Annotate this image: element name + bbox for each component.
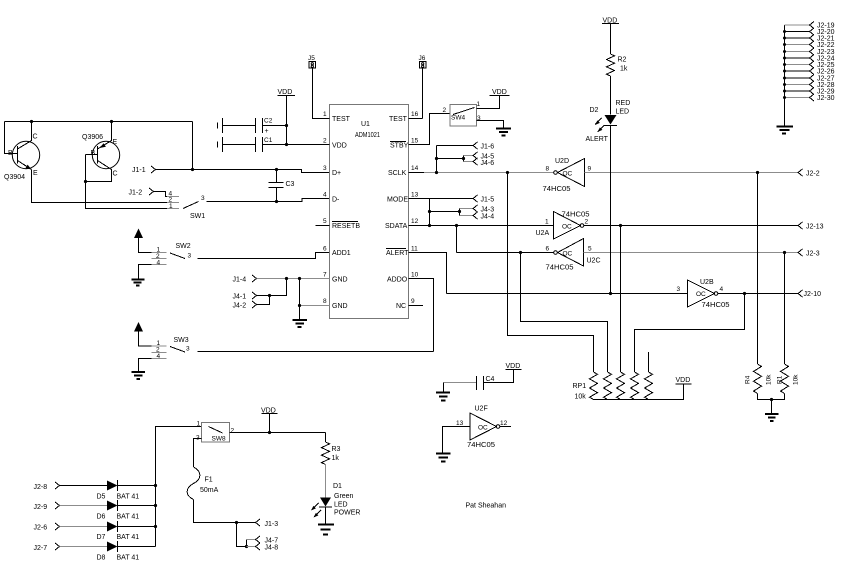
connector J4-3 (460, 205, 495, 214)
svg-text:C3: C3 (286, 181, 295, 188)
wire SW4 pin 3 to ground (477, 121, 504, 129)
wire diode bus to SW8 pin 1 (156, 427, 202, 547)
capacitor C2 (218, 118, 287, 136)
svg-text:Q3904: Q3904 (4, 174, 25, 181)
svg-text:J4-8: J4-8 (265, 545, 279, 552)
inverter U2A 74HC05 (536, 212, 590, 240)
wire RP1 common to VDD (594, 384, 684, 400)
svg-text:J4-4: J4-4 (481, 214, 495, 221)
ground under D1 (318, 525, 334, 535)
svg-text:VDD: VDD (332, 143, 347, 150)
connector J4-7 (247, 536, 279, 545)
svg-text:1k: 1k (332, 455, 340, 462)
svg-text:J2-13: J2-13 (806, 224, 824, 231)
diode D5 BAT 41 (97, 480, 140, 501)
wire J4-3/J4-4 bracket to MODE vertical (430, 209, 462, 216)
svg-text:SW1: SW1 (190, 213, 205, 220)
svg-text:3: 3 (323, 165, 327, 172)
connector J1-3 (256, 519, 279, 528)
connector J4-2 (233, 301, 257, 310)
connector stack J2-19..J2-30 bus (784, 25, 786, 126)
ground at C4 (436, 393, 450, 401)
svg-text:ALERT: ALERT (386, 250, 409, 257)
svg-text:RED: RED (616, 100, 631, 107)
svg-text:ADM1021: ADM1021 (355, 132, 380, 139)
svg-text:9: 9 (588, 166, 592, 173)
wire U2F input to ground (443, 427, 471, 454)
wire ADD0 net: U1 pin 10 to SW3 wire (409, 279, 434, 352)
ground under R4/R1 (765, 414, 779, 421)
connector J4-8 (247, 543, 279, 552)
svg-text:U2A: U2A (536, 230, 550, 237)
wire D1 cathode to ground (325, 507, 327, 524)
svg-text:5: 5 (323, 218, 327, 225)
wire U2F output stub (500, 426, 512, 428)
connector J2-25 (783, 61, 835, 69)
wire U2A output to connector J2-13 (584, 224, 799, 227)
connector J4-5 (464, 152, 495, 161)
connector J1-5 (430, 195, 495, 204)
wire R2 to LED D2 (610, 76, 612, 115)
switch SW3 (152, 337, 191, 360)
connector J2-26 (783, 68, 835, 76)
inverter U2D 74HC05 (543, 158, 592, 193)
svg-text:POWER: POWER (334, 510, 360, 517)
svg-text:J2-10: J2-10 (804, 291, 822, 298)
svg-text:50mA: 50mA (200, 487, 219, 494)
svg-text:J1-2: J1-2 (129, 190, 143, 197)
svg-text:2: 2 (323, 138, 327, 145)
svg-text:74HC05: 74HC05 (562, 212, 590, 219)
svg-text:J1-4: J1-4 (233, 277, 247, 284)
connector J1-6 (437, 142, 495, 173)
svg-text:F1: F1 (205, 477, 213, 484)
wire C4 left plate to ground (443, 383, 445, 393)
wire J4-1 to GND row (257, 279, 287, 298)
inverter U2F 74HC05 (456, 406, 508, 450)
wire SW2 pin 4 to ground (139, 265, 152, 280)
connector J2-13 (798, 222, 824, 231)
wire U1 pin 15 STBY to SW4 pin 2 (409, 114, 451, 145)
svg-text:6: 6 (546, 246, 550, 253)
svg-text:3: 3 (201, 195, 205, 202)
ground at SW4 (496, 129, 511, 136)
svg-text:C: C (113, 171, 118, 178)
power VDD at RP1 (676, 377, 692, 384)
svg-text:J2-26: J2-26 (817, 69, 835, 76)
svg-text:3: 3 (188, 253, 192, 260)
wire J2-9 to diode D6 (60, 505, 108, 507)
svg-text:J2-9: J2-9 (34, 504, 48, 511)
svg-text:SW4: SW4 (451, 115, 465, 122)
svg-text:VDD: VDD (506, 363, 521, 370)
op-amp U1 ADM1021 body (330, 105, 409, 319)
svg-text:OC: OC (562, 224, 572, 231)
svg-text:J4-2: J4-2 (233, 303, 247, 310)
diode D8 BAT 41 (97, 541, 140, 562)
resistor R2 1k (607, 24, 628, 77)
svg-text:E: E (113, 139, 118, 146)
resistor R1 10k (777, 364, 800, 394)
svg-text:J4-6: J4-6 (481, 160, 495, 167)
wire ALERT net: U1 pin 11 to U2B input (409, 253, 688, 296)
wire U2B output pull-up feed to RP1 resistor 4 (635, 294, 745, 373)
svg-text:Q3906: Q3906 (82, 134, 103, 141)
connector J4-6 (464, 158, 495, 167)
svg-text:TEST: TEST (389, 116, 408, 123)
svg-text:OC: OC (563, 251, 573, 258)
svg-text:R2: R2 (618, 57, 627, 64)
switch SW1 (167, 191, 205, 221)
svg-text:D7: D7 (97, 534, 106, 541)
svg-text:U2D: U2D (555, 158, 569, 165)
svg-text:2: 2 (585, 219, 589, 226)
svg-text:STBY: STBY (390, 143, 409, 150)
svg-text:OC: OC (696, 291, 706, 298)
svg-text:R1: R1 (777, 375, 784, 384)
svg-text:U1: U1 (361, 121, 370, 128)
svg-text:+: + (265, 128, 269, 135)
svg-text:74HC05: 74HC05 (543, 186, 571, 193)
svg-text:D+: D+ (332, 170, 341, 177)
wire R4/R1 common to ground (758, 394, 785, 414)
svg-text:2: 2 (231, 428, 235, 435)
svg-text:J1-5: J1-5 (481, 197, 495, 204)
ground under U1 GND pins (293, 320, 308, 327)
transistor Q3904 (4, 122, 40, 182)
wire J1-4 to U1 pin 7 GND (257, 277, 330, 280)
wire top rail connecting Q3904/Q3906 collectors-emitters (5, 120, 193, 123)
svg-text:ADD1: ADD1 (332, 250, 351, 257)
wire J2-8 to diode D5 (60, 485, 108, 487)
svg-text:5: 5 (588, 246, 592, 253)
inverter U2B 74HC05 (677, 279, 730, 309)
svg-text:LED: LED (616, 109, 630, 116)
svg-text:4: 4 (157, 260, 161, 267)
capacitor C4 (444, 370, 514, 391)
svg-text:14: 14 (411, 165, 419, 172)
svg-text:BAT 41: BAT 41 (117, 494, 140, 501)
wire J2-3 row down to R1 (784, 253, 786, 365)
svg-text:U2F: U2F (475, 406, 488, 413)
svg-text:15: 15 (411, 138, 419, 145)
connector J2-19 (785, 22, 835, 30)
svg-text:10: 10 (411, 272, 419, 279)
svg-text:6: 6 (323, 246, 327, 253)
svg-text:10k: 10k (766, 374, 773, 385)
svg-text:J4-7: J4-7 (265, 538, 279, 545)
wire J2-7 to diode D8 (60, 546, 108, 548)
connector J2-7 (34, 543, 60, 552)
wire SW2 pin 3 to IC pin 6 ADD1 (198, 253, 330, 259)
svg-text:D5: D5 (97, 494, 106, 501)
connector J2-2 (798, 169, 820, 178)
wire U2B output to connector J2-10 (718, 292, 799, 295)
wire J2-6 to diode D7 (60, 526, 108, 528)
svg-text:4: 4 (157, 353, 161, 360)
wire SW3 pin 4 to ground (139, 359, 152, 372)
svg-text:ALERT: ALERT (586, 136, 609, 143)
power arrow above SW3 (134, 322, 152, 346)
fuse F1 50mA (187, 467, 218, 500)
svg-text:7: 7 (323, 272, 327, 279)
U1 pin 5 RESETB stub (316, 225, 330, 227)
svg-text:13: 13 (456, 420, 464, 427)
svg-text:1k: 1k (620, 66, 628, 73)
svg-text:J2-30: J2-30 (817, 95, 835, 102)
wire J6 to U1 pin 16 TEST (409, 68, 423, 119)
connector J2-8 (34, 482, 60, 491)
connector J2-9 (34, 502, 60, 511)
VDD symbol above C1/C2 (278, 89, 296, 146)
svg-text:2: 2 (443, 107, 447, 114)
switch SW8 (196, 421, 235, 443)
svg-text:SW2: SW2 (176, 243, 191, 250)
transistor Q3906 (82, 122, 120, 182)
wire Q3906 base/collector junction to SW1 pin 1 (84, 155, 168, 209)
wire D7 to bus (118, 525, 158, 528)
connector J4-4 (460, 212, 495, 221)
connector J1-2 (129, 188, 154, 197)
connector J2-27 (783, 75, 835, 83)
svg-text:SW8: SW8 (212, 436, 226, 443)
svg-text:1: 1 (197, 421, 201, 428)
wire VDD rail to U1 pin 2 VDD (287, 144, 330, 146)
U1 right pin names (385, 116, 409, 310)
svg-text:U2B: U2B (700, 279, 714, 286)
svg-text:RESETB: RESETB (332, 223, 360, 230)
svg-text:SDATA: SDATA (385, 223, 408, 230)
capacitor C3 (269, 170, 295, 204)
svg-text:NC: NC (396, 303, 406, 310)
wire J5 to U1 pin 1 TEST (313, 68, 330, 119)
wire SW3 pin 3 to ADD0 loop (198, 351, 434, 353)
svg-text:J2-6: J2-6 (34, 525, 48, 532)
svg-text:1: 1 (545, 219, 549, 226)
svg-text:LED: LED (334, 502, 348, 509)
jumper J5 (308, 55, 316, 68)
U1 right pin numbers (411, 111, 419, 305)
svg-text:B: B (8, 150, 13, 157)
svg-text:GND: GND (332, 303, 348, 310)
diode D7 BAT 41 (97, 521, 140, 541)
wire MODE net: U1 pin 13 to J1-5 / J4-3 / J4-4 (409, 199, 432, 228)
connector J1-1 (132, 166, 156, 174)
svg-text:10k: 10k (575, 394, 587, 401)
svg-text:J2-3: J2-3 (806, 251, 820, 258)
ground under SW2 (132, 280, 145, 286)
connector J2-20 (783, 28, 835, 36)
svg-text:3: 3 (677, 286, 681, 293)
svg-text:MODE: MODE (387, 197, 408, 204)
switch SW2 (152, 243, 192, 267)
svg-text:D2: D2 (590, 107, 599, 114)
inverter U2C 74HC05 (546, 239, 601, 272)
wire J1-1 to IC pin 3 D+ (156, 122, 330, 173)
capacitor C1 (218, 137, 287, 152)
svg-text:VDD: VDD (278, 89, 293, 96)
svg-text:E: E (33, 170, 38, 177)
svg-text:J5: J5 (308, 55, 315, 62)
U1 left pin numbers (323, 111, 327, 305)
svg-text:74HC05: 74HC05 (702, 302, 730, 309)
svg-text:J1-6: J1-6 (481, 144, 495, 151)
svg-text:10k: 10k (793, 374, 800, 385)
svg-text:SW3: SW3 (174, 337, 189, 344)
svg-text:VDD: VDD (492, 89, 507, 96)
wire SCLK net: U1 pin 14 to U2D output (409, 171, 554, 174)
wire to J4-7/J4-8 bracket (237, 523, 249, 549)
svg-text:4: 4 (720, 286, 724, 293)
ground under SW3 (132, 372, 146, 379)
wire J1-2 to SW1 pin 4 (154, 192, 180, 197)
wire D5 to bus (118, 484, 158, 487)
wire SW8 pin 3 to fuse F1 (194, 439, 202, 468)
U1 pin 9 NC stub (409, 305, 424, 307)
svg-text:D8: D8 (97, 555, 106, 562)
wire SDATA to U2C input row (457, 226, 555, 255)
svg-text:R4: R4 (745, 375, 752, 384)
connector J4-1 (233, 292, 257, 301)
wire J2-2 row down to R4 (757, 173, 759, 365)
svg-text:BAT 41: BAT 41 (117, 514, 140, 521)
wire GND vertical to U1 pin 8 (298, 279, 330, 320)
connector J2-3 (798, 249, 820, 258)
U1 left pin names (332, 116, 360, 310)
wire R3 to LED D1 (325, 465, 327, 498)
diode D6 BAT 41 (97, 500, 140, 521)
svg-text:D1: D1 (333, 483, 342, 490)
svg-text:B: B (91, 150, 96, 157)
svg-text:12: 12 (411, 218, 419, 225)
wire SDATA net: U1 pin 12 to U2A input (409, 224, 554, 227)
svg-text:9: 9 (411, 298, 415, 305)
connector J2-22 (783, 41, 835, 49)
wire J4-5/J4-6 bracket to SCLK vertical (435, 156, 465, 162)
LED D1 Green POWER (311, 483, 360, 518)
wire U2D output to connector J2-2 (585, 171, 799, 174)
wire SDATA pull-up feed to RP1 resistor 3 (620, 226, 622, 373)
svg-text:BAT 41: BAT 41 (117, 555, 140, 562)
connector J2-24 (783, 55, 835, 63)
LED D2 RED (586, 100, 631, 143)
svg-text:ADDO: ADDO (387, 277, 408, 284)
ground under J2 stack (777, 127, 794, 134)
wire F1 to connector J1-3 (194, 500, 256, 525)
svg-text:BAT 41: BAT 41 (117, 534, 140, 541)
svg-text:J2-8: J2-8 (34, 484, 48, 491)
svg-text:74HC05: 74HC05 (546, 265, 574, 272)
power VDD at SW8 (261, 408, 278, 433)
svg-text:GND: GND (332, 277, 348, 284)
wire SW1 pin 3 to IC pin 4 D- (207, 199, 330, 202)
svg-text:Green: Green (334, 493, 354, 500)
connector J2-10 (798, 290, 821, 298)
svg-text:13: 13 (411, 192, 419, 199)
svg-text:D6: D6 (97, 514, 106, 521)
power VDD at C4 (506, 363, 522, 370)
svg-text:J1-3: J1-3 (265, 521, 279, 528)
wire J4-2 to J4-1 row (257, 296, 270, 305)
connector J2-21 (783, 35, 835, 43)
wire stub above RP1 resistor 5 (648, 352, 650, 372)
svg-text:Pat Sheahan: Pat Sheahan (466, 503, 507, 510)
wire SCLK pull-up feed to RP1 resistor 1 (508, 173, 594, 373)
svg-text:16: 16 (411, 111, 419, 118)
svg-text:RP1: RP1 (573, 383, 587, 390)
resistor R4 10k (745, 364, 773, 394)
svg-text:C2: C2 (264, 118, 273, 125)
svg-text:D-: D- (332, 197, 340, 204)
svg-text:8: 8 (546, 166, 550, 173)
svg-text:C1: C1 (264, 137, 273, 144)
connector J2-6 (34, 523, 60, 532)
power arrow above SW2 (134, 229, 152, 253)
wire D2 cathode down to U2B input row (610, 126, 612, 294)
svg-text:74HC05: 74HC05 (467, 442, 495, 449)
wire U2C input 5 to connector J2-3 (584, 251, 799, 254)
svg-text:C: C (33, 134, 38, 141)
resistor R3 1k (322, 433, 341, 465)
svg-text:J4-3: J4-3 (481, 207, 495, 214)
svg-text:J2-7: J2-7 (34, 545, 48, 552)
connector J2-29 (783, 88, 835, 96)
svg-text:1: 1 (477, 101, 481, 108)
svg-text:SCLK: SCLK (388, 170, 407, 177)
svg-text:J1-1: J1-1 (132, 167, 146, 174)
power VDD above R2 (602, 18, 619, 25)
svg-text:12: 12 (500, 420, 508, 427)
svg-text:4: 4 (323, 192, 327, 199)
svg-text:OC: OC (478, 425, 488, 432)
svg-text:1: 1 (169, 203, 173, 210)
svg-text:J4-1: J4-1 (233, 294, 247, 301)
connector J2-23 (783, 48, 835, 56)
svg-text:11: 11 (411, 246, 418, 253)
svg-text:J6: J6 (419, 55, 426, 62)
connector J2-30 (783, 94, 835, 102)
connector J1-4 (233, 275, 257, 284)
wire Q3904 emitter to SW1 pin 2 (32, 170, 168, 203)
svg-text:3: 3 (186, 346, 190, 353)
svg-text:J2-22: J2-22 (817, 42, 835, 49)
jumper J6 (419, 55, 427, 68)
svg-text:C4: C4 (486, 376, 495, 383)
wire D8 to bus (118, 546, 156, 548)
svg-text:TEST: TEST (332, 116, 351, 123)
power VDD at SW4 (490, 89, 510, 96)
svg-text:J2-2: J2-2 (806, 171, 820, 178)
resistor network RP1 10k (573, 372, 653, 401)
svg-text:OC: OC (563, 171, 573, 178)
connector J2-28 (783, 81, 835, 89)
wire SW4 pin 1 to VDD (477, 96, 500, 109)
ground at U2F input (436, 454, 451, 462)
svg-text:8: 8 (323, 298, 327, 305)
switch SW4 (443, 101, 482, 126)
svg-text:VDD: VDD (676, 377, 691, 384)
svg-text:1: 1 (323, 111, 327, 118)
svg-text:U2C: U2C (587, 258, 601, 265)
svg-text:R3: R3 (332, 446, 341, 453)
wire SW8 pin 2 to VDD and R3 (230, 431, 326, 434)
wire U2C-row pull-up feed to RP1 resistor 2 (521, 253, 608, 373)
wire D6 to bus (118, 504, 158, 507)
